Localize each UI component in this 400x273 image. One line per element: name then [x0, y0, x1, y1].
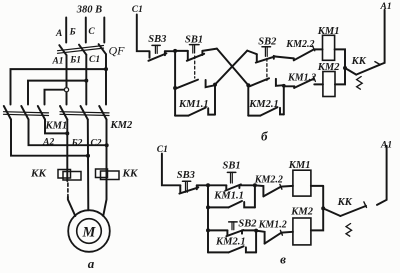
pushbutton SB1 (v) [208, 172, 255, 190]
wire coil KM1 output (v) [311, 185, 323, 187]
svg-text:А: А [55, 29, 62, 39]
wire A1 feed to KM1 pole3 [45, 90, 65, 105]
coil KM2 (v) [293, 218, 311, 245]
node junction SB2 branch (v) [206, 228, 210, 232]
svg-text:С: С [88, 27, 95, 37]
svg-text:КК: КК [351, 56, 367, 67]
contact KM1.1 (self hold) [175, 108, 215, 116]
wire SB1 output rising (b) [202, 49, 217, 51]
svg-text:КМ1: КМ1 [45, 121, 68, 132]
wire B1 vertical [85, 55, 87, 105]
svg-text:SB3: SB3 [148, 34, 166, 45]
svg-text:А1: А1 [380, 140, 392, 150]
svg-text:КМ1.1: КМ1.1 [213, 191, 244, 202]
svg-text:КМ2: КМ2 [110, 120, 133, 131]
svg-text:КМ1.2: КМ1.2 [287, 72, 316, 83]
pushbutton SB2 second contact (b) [250, 78, 284, 86]
thermal relay KK heater right [96, 169, 120, 180]
wire cross diagonal down (b) [217, 49, 248, 86]
svg-text:Б2: Б2 [71, 139, 83, 149]
wire phase A2 down to motor [66, 120, 68, 182]
node junction C1 [104, 67, 108, 71]
mechanical link SB2 (dashed) [266, 59, 268, 81]
contact KM2.1 (v) [208, 230, 256, 252]
wire right side of left loop (b) [214, 85, 216, 115]
contact KM2.1 (self hold) [248, 107, 283, 115]
svg-text:Б1: Б1 [69, 56, 81, 66]
contact KM1.1 (v) [208, 185, 255, 207]
svg-text:SB3: SB3 [177, 170, 195, 181]
node junction coils (b) [343, 66, 347, 70]
contactor KM1 pole 3 [38, 106, 45, 120]
motor M inner circle [77, 219, 102, 244]
wire C1 drop (v) [162, 154, 180, 186]
circuit breaker QF pole 1 [59, 45, 66, 55]
pushbutton SB2 (v) [208, 222, 256, 236]
svg-text:КК: КК [337, 197, 353, 208]
wire right side of right loop (b) [283, 85, 285, 114]
wire riser to A1 (v) [377, 146, 387, 205]
wire KM1 pole2 output to node C2 [29, 120, 107, 146]
node junction after SB1 (v) [253, 183, 257, 187]
svg-text:А1: А1 [51, 56, 63, 66]
wire N1 branch down (b) [174, 51, 176, 116]
wire coil KM1 output [335, 49, 345, 68]
circuit breaker QF pole 2 [79, 45, 86, 55]
svg-text:Б: Б [69, 28, 76, 38]
svg-text:С1: С1 [89, 55, 100, 65]
node B2 junction [86, 154, 90, 158]
wire KM1 pole1 output to node B2 [11, 120, 88, 156]
wire A1 vertical [66, 55, 68, 104]
wire N1 down to SB2 branch (v) [207, 207, 209, 230]
wire C1 vertical [105, 54, 107, 104]
QF linkage bar [58, 46, 104, 54]
node N1 junction (v) [206, 183, 210, 187]
contactor KM2 pole 2 [81, 106, 88, 120]
node junction right loop (b) [282, 84, 286, 88]
node junction A1 (open circle) [64, 88, 68, 92]
svg-text:а: а [88, 256, 95, 271]
coil KM1 [323, 35, 335, 60]
svg-text:SB1: SB1 [223, 160, 241, 171]
svg-text:С2: С2 [90, 139, 101, 149]
svg-text:М: М [82, 224, 97, 240]
contactor KM2 pole 1 [60, 106, 67, 120]
wire phase C2 down to motor [103, 120, 106, 217]
svg-text:SB2: SB2 [258, 37, 277, 48]
contact KM2.2 (v) [255, 184, 293, 196]
svg-text:QF: QF [109, 44, 126, 58]
contact KM1.2 interlock [284, 77, 323, 88]
contactor KM1 pole 1 [4, 106, 11, 120]
wire C1 drop (b) [137, 15, 149, 52]
thermal contact KK (v) [323, 202, 366, 236]
node junction left loop (b) [173, 86, 177, 90]
contactor KM2 pole 3 [99, 106, 106, 120]
node junction loop bottom (v) [206, 205, 210, 209]
coil KM2 [323, 72, 335, 97]
wire phase B2 down to motor [87, 120, 90, 211]
pushbutton SB1 NC contact (b) [175, 45, 204, 61]
coil KM1 (v) [293, 170, 311, 196]
wire B1 feed to KM1 pole2 [28, 81, 86, 105]
motor M outer circle [68, 210, 110, 252]
svg-text:А1: А1 [380, 2, 392, 12]
mechanical link SB1 (dashed) [194, 56, 196, 78]
svg-text:КМ2: КМ2 [290, 207, 313, 218]
node junction after SB2 (v) [254, 229, 258, 233]
KM2 linkage bar [60, 112, 109, 116]
node N1 junction (b) [173, 49, 177, 53]
thermal relay KK heater left [58, 170, 81, 181]
wire coil KM2 output [335, 68, 345, 84]
pushbutton SB2 NC contact (b) [247, 47, 293, 63]
svg-text:КМ2.1: КМ2.1 [215, 237, 246, 248]
node junction B1 [84, 79, 88, 83]
svg-text:КК: КК [122, 168, 138, 180]
svg-text:б: б [261, 129, 268, 144]
wire cross diagonal up (b) [215, 51, 247, 85]
node C2 junction [105, 143, 109, 147]
node junction right loop top left (b) [246, 83, 250, 87]
KM1 linkage bar [4, 112, 49, 116]
svg-text:КМ1.2: КМ1.2 [258, 220, 287, 231]
node junction coils (v) [321, 206, 325, 210]
wire KM1 pole3 output to node A2 [45, 120, 67, 134]
svg-text:SB2: SB2 [238, 218, 257, 229]
pushbutton SB3 (b) [148, 45, 175, 60]
svg-text:КМ2.2: КМ2.2 [254, 175, 283, 186]
svg-text:КК: КК [30, 168, 46, 180]
svg-text:380 В: 380 В [76, 5, 102, 16]
contact KM2.2 interlock [294, 46, 315, 61]
wire C1 feed to KM1 pole1 [11, 69, 107, 104]
node junction right of loop (b) [213, 83, 217, 87]
wire phase C supply [103, 18, 105, 43]
node A2 junction [65, 131, 69, 135]
wire left side right loop (b) [247, 85, 249, 115]
svg-text:КМ2.2: КМ2.2 [285, 39, 314, 50]
contact KM1.2 (v) [256, 230, 293, 243]
svg-text:А2: А2 [42, 137, 54, 147]
wire riser to A1 (b) [380, 10, 385, 65]
wire phase A supply [65, 18, 67, 43]
wire phase B supply [85, 18, 87, 43]
svg-text:в: в [280, 252, 286, 267]
thermal contact KK (b) [345, 62, 380, 90]
contactor KM1 pole 2 [21, 106, 28, 120]
pushbutton SB1 second contact (b) [176, 80, 215, 89]
circuit breaker QF pole 3 [99, 44, 106, 54]
wire coil KM2 output (v) [311, 186, 323, 230]
wire KM2.2 to coil KM1 [314, 48, 323, 50]
pushbutton SB3 (v) [179, 181, 208, 193]
